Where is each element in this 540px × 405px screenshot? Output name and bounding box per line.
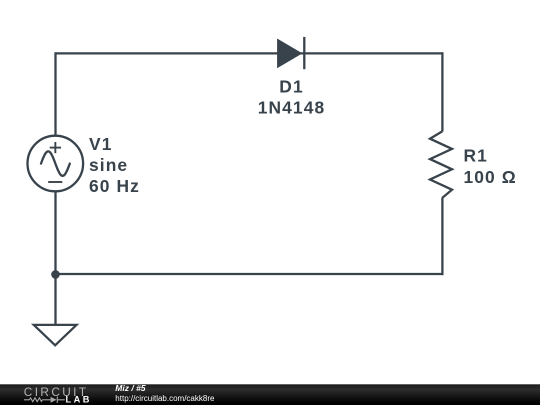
svg-text:sine: sine — [89, 155, 128, 175]
svg-text:100 Ω: 100 Ω — [464, 167, 517, 187]
svg-text:Miz / #5: Miz / #5 — [115, 383, 146, 393]
ground — [34, 325, 77, 345]
svg-text:1N4148: 1N4148 — [258, 97, 326, 117]
junction dot — [51, 270, 60, 279]
wire right vertical lower — [441, 198, 443, 276]
voltage source V1 — [28, 136, 84, 192]
svg-text:60 Hz: 60 Hz — [89, 176, 140, 196]
svg-text:D1: D1 — [279, 76, 303, 96]
svg-text:R1: R1 — [464, 145, 488, 165]
wire left vertical upper — [54, 52, 56, 136]
diode D1 — [277, 39, 302, 69]
logo circuit glyph — [24, 397, 65, 403]
wire left vertical lower — [54, 191, 56, 324]
wire bottom horizontal — [56, 273, 444, 275]
wire top horizontal — [56, 52, 443, 54]
svg-text:http://circuitlab.com/cakk8re: http://circuitlab.com/cakk8re — [115, 394, 215, 403]
resistor R1 — [430, 131, 452, 198]
wire right vertical upper — [441, 52, 443, 131]
svg-text:LAB: LAB — [66, 395, 92, 405]
svg-text:V1: V1 — [89, 134, 112, 154]
